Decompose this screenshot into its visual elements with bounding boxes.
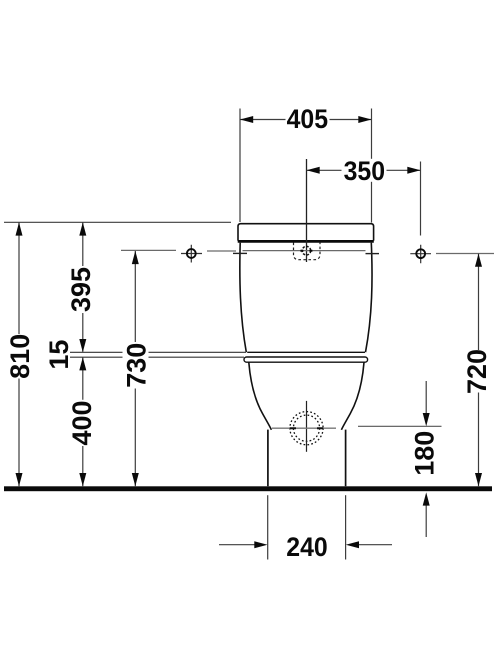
dim 350 left arrow: [307, 167, 320, 174]
dim 350 center extension line: [306, 159, 308, 262]
dim 405 line: [240, 119, 372, 121]
svg-text:180: 180: [410, 431, 440, 476]
dim 350 right extension line: [420, 162, 422, 236]
dim 180 bottom leader: [425, 503, 427, 537]
svg-text:400: 400: [67, 400, 97, 445]
fixing hole height line through tank: [243, 250, 366, 252]
tank left edge height tick: [233, 252, 247, 254]
outlet height reference line (180): [358, 425, 442, 427]
tank body right side: [366, 243, 373, 353]
drain inner dotted circle: [293, 415, 319, 441]
tank right edge height tick: [366, 253, 380, 255]
dim 15 label: [44, 338, 70, 371]
flush valve dashed cutout box: [294, 243, 321, 260]
svg-text:810: 810: [5, 334, 35, 379]
dim 395 bottom arrow: [79, 339, 86, 352]
cistern lid bottom thick edge: [238, 240, 374, 243]
dim 810 bottom arrow: [16, 473, 23, 486]
dim 180 down arrow: [423, 413, 430, 426]
dim 405 right arrow: [358, 116, 371, 123]
dim 180 top leader: [425, 381, 427, 415]
svg-text:395: 395: [66, 267, 96, 312]
dim 350 right arrow: [407, 167, 420, 174]
seat level lower extension line (15): [66, 356, 244, 358]
dim 180 up arrow: [423, 492, 430, 505]
svg-text:240: 240: [286, 533, 327, 562]
fixing hole height line left: [121, 249, 176, 251]
svg-text:730: 730: [122, 343, 152, 388]
right fixing hole crosshair: [410, 245, 431, 263]
dim 395 top arrow: [79, 222, 86, 235]
dim 405 left arrow: [240, 116, 253, 123]
bowl right side: [341, 362, 364, 430]
dim 405 right extension line: [371, 109, 373, 223]
drain chord crossing ticks: [290, 427, 324, 429]
dim 720 bottom arrow: [475, 473, 482, 486]
dim 810 top arrow: [16, 222, 23, 235]
flush valve crosshair circle: [302, 246, 311, 255]
pedestal right edge: [345, 430, 347, 487]
dim 240 right line and arrow: [358, 544, 392, 546]
dim 395 line: [82, 222, 84, 351]
fixing hole height line right: [436, 253, 494, 255]
dim 730 top arrow: [132, 251, 139, 264]
flush valve crosshair ticks: [300, 250, 312, 252]
dim 350 label: [342, 159, 386, 182]
dim 720 line: [478, 254, 480, 487]
svg-text:15: 15: [44, 340, 74, 370]
dim 400 line: [82, 357, 84, 486]
dim 240 left line and arrow: [219, 544, 256, 546]
svg-text:405: 405: [287, 105, 328, 134]
left height dims: 810 line: [18, 222, 20, 486]
drain outer dotted circle: [290, 412, 323, 445]
dim 400 bottom arrow: [79, 473, 86, 486]
seat level upper extension line (15): [66, 351, 246, 353]
dim 405 left extension line: [239, 109, 241, 223]
dim 240 right extension line: [345, 495, 347, 559]
drain horizontal chord line: [272, 427, 336, 429]
pedestal left edge: [267, 430, 269, 487]
dim 730 line: [123, 341, 149, 390]
tank bottom edge: [247, 351, 365, 353]
toilet cistern lid: [238, 224, 374, 241]
svg-text:720: 720: [462, 349, 492, 394]
drain vertical centerline: [306, 401, 308, 452]
fixing hole height line left inner segment: [207, 250, 236, 252]
tank body left side: [240, 243, 246, 353]
dim 720 top arrow: [475, 254, 482, 267]
left fixing hole crosshair: [181, 245, 202, 263]
ground line: [4, 486, 492, 491]
svg-text:350: 350: [344, 157, 385, 186]
dim 350 line: [307, 169, 421, 171]
bowl left side: [249, 362, 272, 430]
dim 730 bottom arrow: [132, 473, 139, 486]
dim 240 left extension line: [267, 495, 269, 559]
seat collar ring: [244, 357, 368, 362]
top reference line at 810 height: [4, 221, 231, 223]
dim 400 top arrow: [79, 357, 86, 370]
